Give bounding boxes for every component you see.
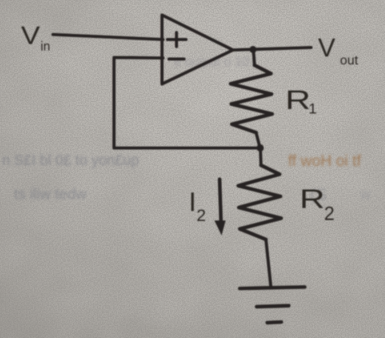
op-amp U1: [162, 15, 233, 84]
label Vout: [318, 33, 358, 68]
label Vin: [21, 22, 50, 54]
svg-text:out: out: [340, 53, 358, 68]
svg-text:R: R: [285, 85, 310, 115]
junction node A: [257, 144, 264, 151]
wire R2 to ground: [266, 239, 271, 288]
svg-text:2: 2: [197, 206, 206, 225]
resistor R1: [231, 65, 273, 132]
resistor R2: [238, 165, 281, 239]
wire R1 bottom lead: [256, 133, 260, 148]
wire R2 top lead: [259, 148, 263, 165]
svg-text:1: 1: [309, 101, 317, 118]
svg-text:ts iliw tedw: ts iliw tedw: [14, 186, 87, 203]
svg-text:n S£I bl 0£ to yon£up: n S£I bl 0£ to yon£up: [2, 153, 139, 169]
ground: [240, 287, 305, 323]
svg-text:e ouiput o 10 f: e ouiput o 10 f: [174, 54, 257, 69]
svg-text:V: V: [318, 33, 336, 63]
svg-text:I: I: [189, 187, 197, 217]
wire output to Vout: [233, 48, 311, 51]
wire feedback from inverting input to node A: [114, 58, 257, 149]
current arrow I2: [214, 179, 225, 235]
label R1: [285, 85, 317, 118]
svg-text:ff woH oi tf: ff woH oi tf: [288, 153, 362, 170]
wire R1 top lead: [253, 50, 254, 65]
label I2: [189, 187, 206, 225]
label R2: [300, 184, 335, 225]
svg-text:2: 2: [324, 204, 335, 225]
junction output node: [250, 46, 257, 53]
svg-text:in: in: [41, 40, 51, 54]
svg-text:w: w: [359, 186, 371, 203]
wire Vin to op-amp noninverting input: [53, 35, 163, 40]
svg-text:V: V: [21, 22, 40, 50]
svg-text:R: R: [300, 184, 325, 214]
